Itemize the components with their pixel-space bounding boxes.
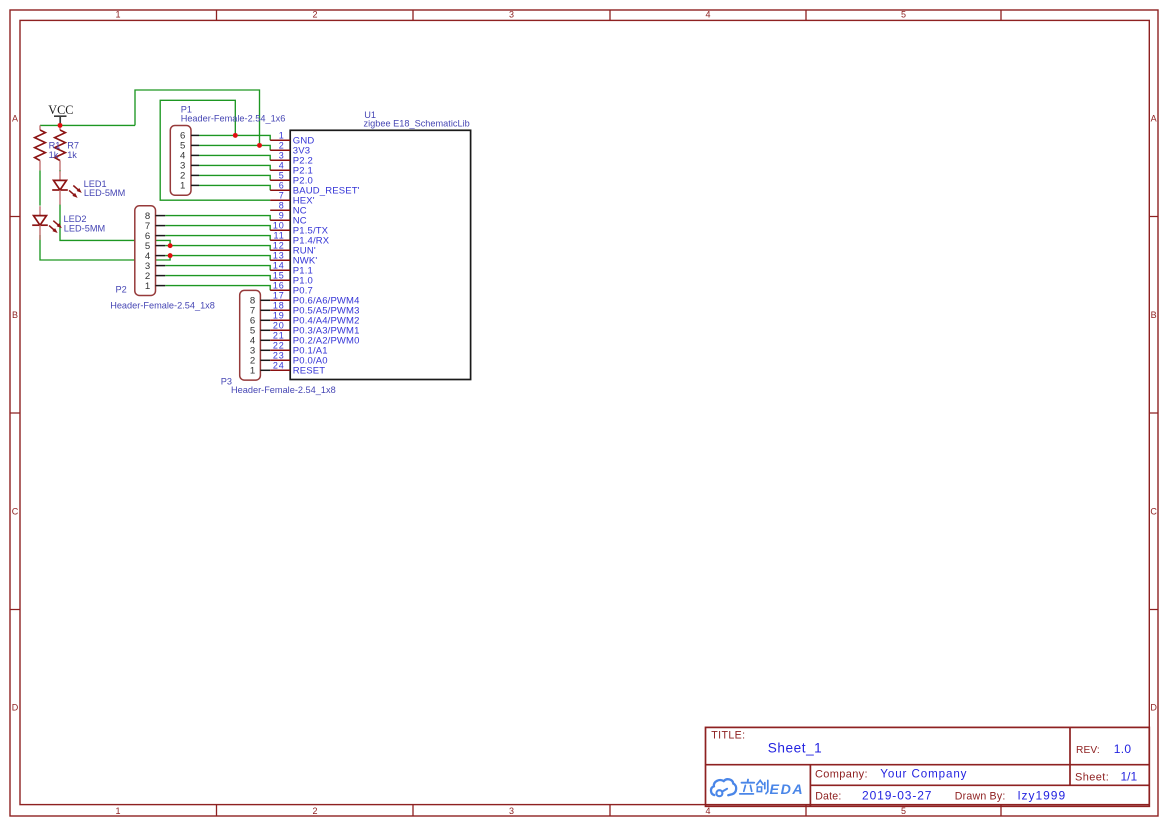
P3 pin 7 number [250,306,255,317]
P2 pin 7 stub [156,225,166,227]
svg-text:Header-Female-2.54_1x8: Header-Female-2.54_1x8 [231,385,336,395]
U1 refdes label [364,110,376,120]
P1 pin 3 number [180,161,185,172]
P3 pin 5 stub [260,329,270,331]
P3 pin 1 stub [260,369,270,371]
P3 pin 6 number [250,316,255,327]
svg-text:7: 7 [279,190,285,200]
frame column label 1 bottom [115,806,120,816]
title block company value Your Company [880,767,967,780]
svg-text:Header-Female-2.54_1x6: Header-Female-2.54_1x6 [181,114,286,124]
U1 pin 17 stub [270,299,290,301]
P3 refdes label [221,376,232,386]
frame tick marks top/bottom [217,10,1002,816]
U1 pin 15 stub [270,279,290,281]
P3 pin 5 number [250,326,255,337]
U1 pin 4 stub [270,169,290,171]
svg-text:1/1: 1/1 [1121,769,1138,783]
U1 pin 20 stub [270,329,290,331]
U1 pin 9 stub [270,219,290,221]
svg-text:17: 17 [273,290,285,300]
U1 pin 5 stub [270,179,290,181]
U1 pin 15 name P1.0 [293,276,313,287]
svg-text:A: A [12,113,18,123]
wire P1 pin 6 to U1 pin 1 [199,135,270,140]
frame row label A left [12,113,18,123]
U1 pin 12 number [273,240,285,250]
svg-text:R1: R1 [49,140,61,150]
junction LED1 on P2.5-U1.12 wire [168,243,173,248]
svg-text:12: 12 [273,240,285,250]
svg-text:Sheet:: Sheet: [1075,771,1109,783]
P3 pin 7 stub [260,309,270,311]
P1 refdes label [181,104,192,114]
svg-text:R7: R7 [67,140,79,150]
frame column label 2 top [312,10,317,20]
wire P1 pin 2 to U1 pin 5 [199,175,270,180]
title block divider lines [706,727,1149,806]
P1 pin 3 stub [191,164,199,166]
title block revision value 1.0 [1114,742,1132,756]
svg-text:LED-5MM: LED-5MM [84,188,125,198]
svg-text:4: 4 [279,160,285,170]
svg-text:Drawn By:: Drawn By: [955,790,1006,802]
junction VCC on P1.5-U1.2 wire [257,143,262,148]
U1 pin 12 name RUN' [293,246,316,257]
P2 pin 4 number [145,251,151,262]
P3 pin 2 number [250,356,255,367]
wire P2 pin 3 to U1 pin 14 [165,266,270,271]
U1 pin 13 name NWK' [293,256,318,267]
svg-text:lzy1999: lzy1999 [1018,788,1066,802]
svg-text:1: 1 [115,806,120,816]
title block outline [706,727,1150,806]
U1 pin 13 number [273,250,285,260]
frame row label C left [12,506,19,516]
svg-text:EDA: EDA [770,782,805,798]
frame column label 2 bottom [312,806,317,816]
wire P2 pin 2 to U1 pin 15 [165,276,270,281]
U1 pin 11 stub [270,239,290,241]
U1 pin 19 number [273,310,285,320]
U1 pin 1 name GND [293,136,315,147]
svg-text:14: 14 [273,260,285,270]
P1 part name label [181,114,286,124]
U1 pin 18 stub [270,309,290,311]
svg-text:1: 1 [145,281,150,292]
U1 pin 24 stub [270,369,290,371]
P1 pin 4 stub [191,154,199,156]
P1 pin 5 number [180,141,185,152]
IC U1 zigbee E18_SchematicLib body [290,130,470,379]
wire P2 pin 1 to U1 pin 16 [165,286,270,291]
U1 pin 5 name P2.0 [293,176,313,187]
frame row label B right [1151,310,1157,320]
svg-text:Your Company: Your Company [880,767,967,780]
svg-text:4: 4 [705,806,710,816]
U1 pin 19 name P0.4/A4/PWM2 [293,316,360,327]
resistor R7 [55,125,66,170]
svg-text:2: 2 [312,806,317,816]
wire P1 pin 5 to U1 pin 2 [199,145,270,150]
title block REV: label [1076,745,1100,756]
U1 pin 4 name P2.1 [293,166,313,177]
svg-text:Date:: Date: [815,790,841,802]
wire P2 pin 6 to U1 pin 11 [165,236,270,241]
title block date value 2019-03-27 [862,788,932,802]
EasyEDA logo chinese character LI (stand) [740,780,754,794]
svg-text:C: C [12,506,19,516]
frame tick marks left/right [10,217,1158,610]
P2 pin 1 stub [156,285,166,287]
EasyEDA (LCEDA) logo cloud [711,779,736,796]
svg-text:13: 13 [273,250,285,260]
U1 pin 10 number [273,220,285,230]
resistor R7 value label 1k [67,150,77,160]
U1 pin 14 number [273,260,285,270]
U1 pin 14 name P1.1 [293,266,313,277]
P3 pin 3 stub [260,349,270,351]
svg-text:21: 21 [273,330,285,340]
P3 pin 4 stub [260,339,270,341]
U1 pin 9 name NC [293,216,307,227]
svg-text:1: 1 [180,181,185,192]
LED LED1 [52,171,81,205]
connector P1 Header-Female-2.54_1x6 [170,126,191,196]
LED1 value label LED-5MM [84,188,125,198]
U1 part name label zigbee E18_SchematicLib [364,118,470,128]
U1 pin 16 name P0.7 [293,286,313,297]
U1 pin 1 stub [270,139,290,141]
svg-text:19: 19 [273,310,285,320]
svg-text:1: 1 [115,10,120,20]
U1 pin 5 number [279,170,285,180]
U1 pin 21 stub [270,339,290,341]
svg-text:TITLE:: TITLE: [711,729,745,741]
resistor R1 refdes label [49,140,61,150]
U1 pin 21 name P0.2/A2/PWM0 [293,336,360,347]
svg-text:C: C [1150,506,1157,516]
svg-text:Sheet_1: Sheet_1 [768,740,823,755]
title block Date: label [815,790,841,802]
junction HEX' loop on P1.6-U1.1 wire [233,133,238,138]
frame column label 1 top [115,10,120,20]
svg-text:23: 23 [273,350,285,360]
resistor R1 [35,125,46,170]
U1 pin 8 number [279,200,285,210]
wire P2 pin 8 to U1 pin 9 [165,216,270,221]
connector P3 Header-Female-2.54_1x8 [240,290,261,380]
U1 pin 2 name 3V3 [293,146,310,157]
U1 pin 16 stub [270,289,290,291]
P1 pin 2 number [180,171,185,182]
U1 pin 24 name RESET [293,366,325,377]
P3 pin 8 stub [260,299,270,301]
frame column label 5 bottom [901,806,906,816]
svg-text:1k: 1k [67,150,77,160]
svg-text:VCC: VCC [48,103,73,117]
wire HEX' net loop to U1 pin 7 [160,100,270,200]
P2 pin 2 stub [156,275,166,277]
P2 pin 7 number [145,221,150,232]
wire P2 pin 5 to U1 pin 12 [165,246,270,251]
U1 pin 6 stub [270,189,290,191]
svg-text:3: 3 [509,10,514,20]
svg-text:2019-03-27: 2019-03-27 [862,788,932,802]
title block Company: label [815,768,868,780]
wire P2 pin 4 to U1 pin 13 [165,256,270,261]
title block TITLE: label [711,729,745,741]
LED1 refdes label [84,179,107,189]
U1 pin 24 number [273,360,285,370]
svg-text:1.0: 1.0 [1114,742,1132,756]
svg-text:20: 20 [273,320,285,330]
wire P1 pin 1 to U1 pin 6 [199,185,270,190]
svg-text:3: 3 [509,806,514,816]
U1 pin 7 name HEX' [293,196,315,207]
svg-text:1k: 1k [49,150,59,160]
P2 pin 5 stub [156,245,166,247]
junction LED2 on P2.4-U1.13 wire [168,253,173,258]
U1 pin 10 stub [270,229,290,231]
frame column label 3 top [509,10,514,20]
U1 pin 16 number [273,280,285,290]
svg-text:6: 6 [279,180,285,190]
P1 pin 6 stub [191,134,199,136]
frame row label B left [12,310,18,320]
svg-text:LED-5MM: LED-5MM [64,224,105,234]
U1 pin 21 number [273,330,285,340]
junction at VCC / R1 / R7 [58,123,63,128]
U1 pin 22 name P0.1/A1 [293,346,328,357]
svg-text:zigbee E18_SchematicLib: zigbee E18_SchematicLib [364,118,470,128]
P2 pin 1 number [145,281,150,292]
U1 pin 20 name P0.3/A3/PWM1 [293,326,360,337]
P2 pin 6 number [145,231,150,242]
U1 pin 6 name BAUD_RESET' [293,186,360,197]
P2 pin 3 stub [156,265,166,267]
svg-text:15: 15 [273,270,285,280]
U1 pin 9 number [279,210,285,220]
U1 pin 22 number [273,340,285,350]
svg-text:10: 10 [273,220,285,230]
wire P1 pin 4 to U1 pin 3 [199,155,270,160]
wire LED1 cathode down-right to P2 pin5 net [60,205,170,246]
wire VCC up-over-down to 3V3 net junction [135,90,260,145]
frame row label D left [12,702,19,712]
P2 pin 5 number [145,241,150,252]
U1 pin 12 stub [270,249,290,251]
svg-text:5: 5 [279,170,285,180]
U1 pin 17 number [273,290,285,300]
svg-text:2: 2 [279,140,285,150]
P2 refdes label [116,285,127,295]
svg-text:D: D [1150,702,1157,712]
P1 pin 6 number [180,131,185,142]
frame row label A right [1151,113,1157,123]
LED2 value label LED-5MM [64,224,105,234]
P2 pin 3 number [145,261,150,272]
P2 pin 8 stub [156,215,166,217]
U1 pin 23 stub [270,359,290,361]
U1 pin 18 number [273,300,285,310]
U1 pin 23 name P0.0/A0 [293,356,328,367]
U1 pin 14 stub [270,269,290,271]
title block author value lzy1999 [1018,788,1066,802]
P2 pin 8 number [145,211,150,222]
svg-text:D: D [12,702,19,712]
svg-text:5: 5 [901,806,906,816]
svg-text:3: 3 [279,150,285,160]
svg-text:B: B [1151,310,1157,320]
U1 pin 8 name NC [293,206,307,217]
U1 pin 11 number [274,230,285,240]
svg-text:Company:: Company: [815,768,868,780]
P3 part name label [231,385,336,395]
P1 pin 1 stub [191,184,199,186]
P2 pin 4 stub [156,255,166,257]
frame column label 4 bottom [705,806,710,816]
U1 pin 23 number [273,350,285,360]
svg-text:4: 4 [705,10,710,20]
U1 pin 2 number [279,140,285,150]
svg-text:18: 18 [273,300,285,310]
svg-text:P2: P2 [116,285,127,295]
U1 pin 11 name P1.4/RX [293,236,330,247]
U1 pin 3 number [279,150,285,160]
resistor R1 value label 1k [49,150,59,160]
svg-text:9: 9 [279,210,285,220]
U1 pin 10 name P1.5/TX [293,226,329,237]
U1 pin 13 stub [270,259,290,261]
connector P2 Header-Female-2.54_1x8 [135,206,156,296]
svg-text:LED2: LED2 [64,214,87,224]
wire R7 bottom to LED1 anode [59,170,61,172]
P3 pin 3 number [250,346,255,357]
svg-text:24: 24 [273,360,285,370]
P1 pin 1 number [180,181,185,192]
svg-text:5: 5 [901,10,906,20]
EasyEDA logo EDA text [770,782,805,798]
svg-text:8: 8 [279,200,285,210]
U1 pin 4 number [279,160,285,170]
U1 pin 6 number [279,180,285,190]
svg-text:1: 1 [250,366,255,377]
P2 part name label [110,300,215,310]
U1 pin 7 number [279,190,285,200]
frame row label C right [1150,506,1157,516]
title block sheet value 1/1 [1121,769,1138,783]
svg-text:2: 2 [312,10,317,20]
P2 pin 2 number [145,271,150,282]
LED2 refdes label [64,214,87,224]
svg-text:Header-Female-2.54_1x8: Header-Female-2.54_1x8 [110,300,215,310]
EasyEDA logo chinese character CHUANG (create) [757,780,768,793]
svg-text:RESET: RESET [293,366,325,377]
U1 pin 8 stub [270,209,290,211]
P3 pin 1 number [250,366,255,377]
svg-text:B: B [12,310,18,320]
U1 pin 19 stub [270,319,290,321]
svg-text:22: 22 [273,340,285,350]
P1 pin 5 stub [191,144,199,146]
svg-text:REV:: REV: [1076,745,1100,756]
resistor R7 refdes label [67,140,79,150]
svg-text:1: 1 [279,130,285,140]
svg-text:16: 16 [273,280,285,290]
wire R1 bottom to LED2 anode [39,170,41,205]
U1 pin 3 name P2.2 [293,156,313,167]
U1 pin 20 number [273,320,285,330]
frame column label 4 top [705,10,710,20]
U1 pin 15 number [273,270,285,280]
P1 pin 2 stub [191,174,199,176]
U1 pin 17 name P0.6/A6/PWM4 [293,296,360,307]
wire VCC horizontal from R1 top to corner [40,124,135,126]
P1 pin 4 number [180,151,186,162]
P3 pin 4 number [250,336,256,347]
VCC power symbol [48,103,73,125]
LED LED2 [32,206,61,240]
U1 pin 2 stub [270,149,290,151]
svg-text:A: A [1151,113,1157,123]
U1 pin 1 number [279,130,285,140]
frame column label 5 top [901,10,906,20]
U1 pin 3 stub [270,159,290,161]
title block Sheet: label [1075,771,1109,783]
wire P1 pin 3 to U1 pin 4 [199,165,270,170]
title block sheet title Sheet_1 [768,740,823,755]
U1 pin 18 name P0.5/A5/PWM3 [293,306,360,317]
frame column label 3 bottom [509,806,514,816]
svg-text:11: 11 [274,230,285,240]
wire P2 pin 7 to U1 pin 10 [165,226,270,231]
P3 pin 6 stub [260,319,270,321]
P2 pin 6 stub [156,235,166,237]
U1 pin 7 stub [270,199,290,201]
frame row label D right [1150,702,1157,712]
U1 pin 22 stub [270,349,290,351]
P3 pin 8 number [250,296,255,307]
P3 pin 2 stub [260,359,270,361]
title block Drawn By: label [955,790,1006,802]
wire LED2 cathode down-right to P2 pin4 net [40,235,170,260]
